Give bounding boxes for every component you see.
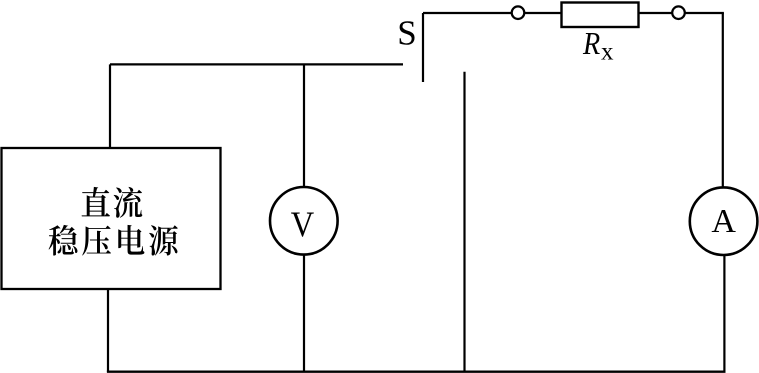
switch S pole (left blade) — [422, 13, 424, 82]
svg-text:V: V — [291, 204, 315, 244]
terminal circle left of Rx — [512, 6, 525, 19]
switch S right contact wire down to bottom — [463, 72, 465, 372]
label 直流 (line 1) — [82, 187, 143, 218]
wire: right vertical, top corner down to ammeter — [722, 13, 724, 205]
wire: voltmeter branch vertical — [303, 64, 305, 371]
wire: top wire from switch pole to top-right corner — [423, 12, 724, 14]
ammeter A circle — [690, 187, 758, 255]
voltmeter V circle — [270, 187, 338, 255]
label 稳压电源 (line 2) — [49, 225, 178, 256]
wire: left horizontal from supply to switch — [110, 63, 403, 65]
label Rx : R italic — [582, 25, 600, 61]
wire: left vertical from supply top — [109, 64, 111, 149]
terminal circle right of Rx — [672, 6, 685, 19]
resistor Rx body — [562, 3, 639, 28]
power supply box — [2, 148, 221, 289]
svg-text:x: x — [601, 39, 614, 66]
svg-text:R: R — [582, 25, 600, 61]
svg-text:A: A — [711, 203, 736, 240]
wire: supply bottom to bottom wire — [107, 288, 109, 372]
wire: bottom wire — [107, 371, 726, 373]
wire: right vertical, ammeter down to bottom wire — [723, 240, 725, 372]
label V — [291, 204, 315, 244]
svg-text:S: S — [397, 14, 416, 53]
